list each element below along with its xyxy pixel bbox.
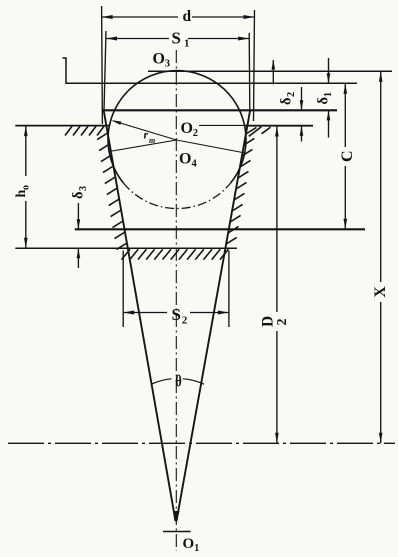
node O2 label (181, 120, 199, 139)
apex blob at cone vertex (173, 511, 180, 524)
svg-text:2: 2 (193, 128, 198, 139)
node O4 label (179, 151, 198, 170)
svg-text:2: 2 (286, 92, 297, 97)
hatch bottom band (122, 249, 229, 259)
node O2 level line (199, 124, 248, 126)
ball circle (solid upper arc) (108, 71, 246, 183)
line A bore bottom plane (75, 228, 365, 230)
svg-text:1: 1 (323, 92, 334, 97)
line 4 right seat face (244, 125, 313, 127)
svg-text:δ: δ (316, 97, 332, 105)
svg-text:O: O (181, 120, 193, 137)
cone right wall (177, 111, 251, 521)
dimension X (372, 71, 389, 443)
radius rm arrow to ball surface (111, 120, 176, 145)
dimension D/2 (260, 126, 291, 443)
svg-text:δ: δ (279, 97, 295, 105)
svg-text:S: S (172, 29, 181, 48)
node O3 label (153, 51, 171, 70)
svg-text:O: O (153, 51, 165, 68)
hatch left face (65, 126, 104, 135)
svg-text:4: 4 (192, 159, 198, 170)
svg-text:1: 1 (194, 543, 199, 554)
line 2 datum with left stub (63, 58, 358, 83)
radius to left contact point (109, 140, 177, 152)
svg-text:D: D (260, 316, 277, 327)
dimension C (339, 83, 356, 229)
baseline datum dash-dot (8, 442, 395, 444)
svg-text:δ: δ (71, 191, 87, 199)
node O1 label (183, 536, 200, 554)
svg-text:3: 3 (78, 186, 89, 191)
svg-text:O: O (183, 536, 195, 552)
dimension d (102, 6, 255, 124)
cone left wall (104, 111, 176, 521)
hatch right face (249, 127, 271, 137)
svg-text:θ: θ (175, 373, 182, 391)
line 3 gauge plane (103, 109, 338, 111)
svg-text:X: X (372, 286, 389, 298)
svg-text:S: S (172, 305, 181, 324)
svg-text:2: 2 (275, 319, 290, 326)
line 1 tangent at ball top (148, 70, 392, 72)
svg-text:1: 1 (184, 38, 190, 50)
svg-text:r: r (144, 128, 149, 142)
hatch left wall band (97, 133, 127, 250)
radius to right contact point (177, 140, 246, 153)
angle theta arc (151, 373, 204, 391)
svg-text:3: 3 (165, 59, 170, 70)
centerline vertical axis (175, 50, 177, 551)
svg-text:C: C (339, 150, 356, 162)
svg-text:2: 2 (182, 315, 188, 327)
line B part bottom face (15, 247, 237, 249)
dimension delta2 (279, 87, 304, 142)
hatch right wall band (226, 127, 256, 244)
apex crossbar (163, 531, 191, 533)
dimension h0 (14, 126, 32, 249)
dimension S1 (104, 29, 250, 112)
svg-text:d: d (183, 8, 192, 25)
dimension delta1 (316, 58, 335, 138)
svg-text:O: O (179, 151, 191, 168)
svg-text:o: o (21, 185, 32, 190)
dimension delta3 (71, 186, 90, 268)
tick arrow at plate right end (272, 60, 276, 85)
ball circle lower dash-dot arc (123, 183, 230, 209)
line 4 left seat face (15, 125, 110, 127)
dimension S2 (123, 251, 229, 328)
